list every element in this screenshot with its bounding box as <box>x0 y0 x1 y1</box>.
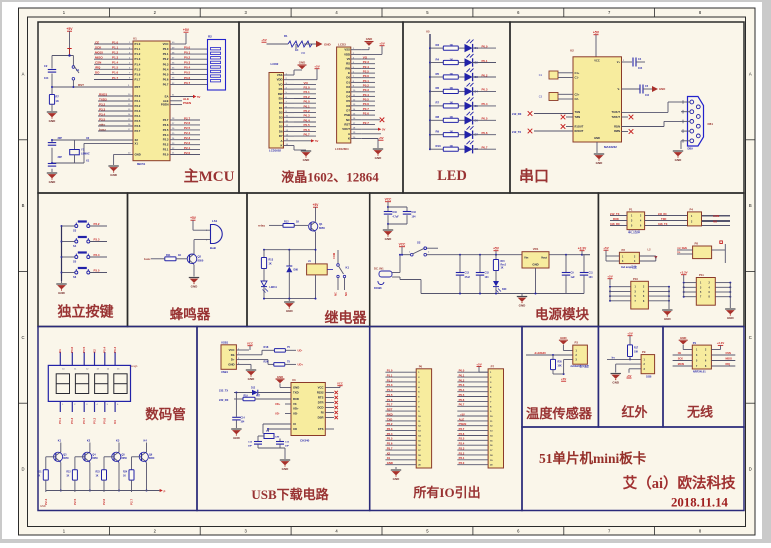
svg-text:P1.6: P1.6 <box>135 72 141 76</box>
svg-text:P3.0: P3.0 <box>135 94 141 98</box>
svg-text:+3.3V: +3.3V <box>717 341 725 345</box>
svg-text:P1.7: P1.7 <box>112 76 119 80</box>
svg-text:R19: R19 <box>244 396 249 398</box>
svg-text:D0: D0 <box>279 101 283 105</box>
svg-text:R2: R2 <box>208 35 212 39</box>
svg-text:红外: 红外 <box>621 405 647 420</box>
svg-text:P4: P4 <box>690 207 694 211</box>
svg-text:1K: 1K <box>123 476 126 478</box>
svg-text:RS: RS <box>346 62 350 66</box>
svg-text:R1IN: R1IN <box>614 124 620 128</box>
svg-text:R24: R24 <box>123 471 128 474</box>
svg-text:10K: 10K <box>634 352 639 354</box>
svg-text:P0.7: P0.7 <box>459 403 465 407</box>
svg-text:R21: R21 <box>37 472 42 474</box>
svg-text:E: E <box>348 71 350 75</box>
svg-text:8050: 8050 <box>122 457 128 460</box>
svg-text:buzz: buzz <box>144 257 151 261</box>
svg-text:RXD: RXD <box>613 217 619 221</box>
svg-text:P2.3: P2.3 <box>363 60 370 64</box>
svg-text:R1OUT: R1OUT <box>575 124 584 128</box>
svg-text:GND: GND <box>727 316 735 320</box>
svg-text:P2.7: P2.7 <box>184 116 191 120</box>
svg-text:D5: D5 <box>279 125 283 129</box>
svg-text:数码管: 数码管 <box>145 406 186 422</box>
svg-text:89C51: 89C51 <box>137 162 146 166</box>
svg-text:P3.2: P3.2 <box>94 222 100 226</box>
svg-text:P0.2: P0.2 <box>92 417 96 424</box>
svg-text:P1.4: P1.4 <box>112 61 119 65</box>
svg-text:+5V: +5V <box>627 374 632 378</box>
svg-text:GND: GND <box>375 156 383 160</box>
svg-text:P0.3: P0.3 <box>113 346 117 353</box>
svg-text:4.7uF: 4.7uF <box>393 216 400 219</box>
svg-text:P0.6: P0.6 <box>184 76 191 80</box>
svg-text:K1: K1 <box>346 266 350 270</box>
svg-text:P0.3: P0.3 <box>304 114 311 118</box>
svg-text:R232: R232 <box>317 391 324 395</box>
svg-text:D20: D20 <box>502 288 507 291</box>
svg-text:P1.7: P1.7 <box>135 78 141 82</box>
svg-text:T2IN: T2IN <box>575 115 581 119</box>
svg-text:R9: R9 <box>436 130 440 134</box>
svg-text:BuB: BuB <box>210 246 216 250</box>
svg-text:K1: K1 <box>58 349 62 353</box>
svg-text:D3: D3 <box>279 115 283 119</box>
svg-text:P1.1: P1.1 <box>135 47 141 51</box>
svg-text:NRF24L01: NRF24L01 <box>693 369 706 373</box>
svg-text:P1.1: P1.1 <box>387 374 393 378</box>
svg-text:U2: U2 <box>570 49 574 53</box>
svg-text:P2.2: P2.2 <box>184 141 191 145</box>
svg-text:DO: DO <box>95 71 100 75</box>
svg-text:CSN: CSN <box>95 61 101 65</box>
svg-text:R7: R7 <box>56 95 60 99</box>
svg-text:P2.7: P2.7 <box>130 498 134 505</box>
svg-text:8050: 8050 <box>92 457 98 460</box>
svg-text:NO: NO <box>713 220 717 224</box>
svg-text:1K: 1K <box>56 99 59 103</box>
svg-text:X1: X1 <box>135 141 139 145</box>
svg-text:B: B <box>749 203 752 208</box>
svg-text:S5: S5 <box>73 260 77 264</box>
svg-text:液晶1602、12864: 液晶1602、12864 <box>281 170 379 185</box>
svg-text:P1.2: P1.2 <box>135 52 141 56</box>
svg-text:GND: GND <box>532 263 538 267</box>
svg-text:VCC: VCC <box>318 386 324 390</box>
svg-text:P3.7: P3.7 <box>387 447 393 451</box>
svg-text:D12: D12 <box>251 388 256 390</box>
svg-text:V-: V- <box>618 87 621 91</box>
svg-text:P0.4: P0.4 <box>363 93 370 97</box>
svg-text:30P: 30P <box>58 156 63 159</box>
svg-text:D+: D+ <box>231 358 235 362</box>
svg-text:+5V: +5V <box>314 65 319 69</box>
svg-text:P0.6: P0.6 <box>163 78 169 82</box>
svg-text:P0.7: P0.7 <box>363 107 370 111</box>
svg-text:P2.5: P2.5 <box>184 126 191 130</box>
svg-text:R8: R8 <box>436 115 440 119</box>
svg-text:P0.3: P0.3 <box>163 62 169 66</box>
svg-text:VDD: VDD <box>344 52 350 56</box>
svg-text:P0.1: P0.1 <box>482 59 488 63</box>
svg-text:P2.1: P2.1 <box>459 456 465 460</box>
svg-text:P1.5: P1.5 <box>112 66 119 70</box>
svg-text:R22: R22 <box>66 472 71 474</box>
svg-text:A: A <box>22 71 25 76</box>
svg-text:A: A <box>749 71 752 76</box>
svg-text:D6: D6 <box>279 129 283 133</box>
svg-text:VO: VO <box>301 51 306 55</box>
svg-text:mko: mko <box>99 122 105 126</box>
svg-text:P1.0: P1.0 <box>387 369 393 373</box>
svg-text:+5V: +5V <box>66 27 73 31</box>
svg-text:+5V: +5V <box>190 216 197 220</box>
svg-text:232_RX: 232_RX <box>219 398 229 402</box>
svg-text:GND: GND <box>40 504 46 508</box>
svg-text:P2.5: P2.5 <box>163 128 169 132</box>
svg-text:P2.1: P2.1 <box>304 90 311 94</box>
svg-text:318_RX: 318_RX <box>610 222 620 226</box>
svg-text:P0.6: P0.6 <box>363 102 370 106</box>
svg-text:IRQ: IRQ <box>726 363 731 366</box>
svg-text:R15: R15 <box>501 261 506 263</box>
svg-text:P2.2: P2.2 <box>163 143 169 147</box>
svg-text:GND: GND <box>596 161 604 165</box>
svg-text:GND: GND <box>324 42 332 46</box>
svg-text:Res2: Res2 <box>501 264 507 266</box>
svg-text:A: A <box>280 139 282 143</box>
svg-text:P3.5: P3.5 <box>135 119 141 123</box>
svg-text:Vout: Vout <box>541 256 547 260</box>
svg-text:P1.7: P1.7 <box>387 403 393 407</box>
svg-text:RTS: RTS <box>318 396 324 400</box>
svg-text:P3.3: P3.3 <box>99 107 106 111</box>
svg-text:R23: R23 <box>96 472 101 474</box>
svg-text:1838: 1838 <box>646 376 652 379</box>
svg-text:电源模块: 电源模块 <box>535 306 589 322</box>
svg-text:P0.3: P0.3 <box>482 88 488 92</box>
svg-text:P1.0: P1.0 <box>135 42 141 46</box>
svg-text:P2.6: P2.6 <box>363 112 370 116</box>
svg-text:D7: D7 <box>279 134 283 138</box>
svg-text:RXD: RXD <box>293 397 299 401</box>
svg-text:GND: GND <box>519 304 527 308</box>
svg-text:318_TX: 318_TX <box>658 222 668 226</box>
svg-text:GND: GND <box>299 61 305 65</box>
svg-text:P3.6: P3.6 <box>135 124 141 128</box>
svg-text:P2.2: P2.2 <box>304 95 311 99</box>
svg-text:P0.6: P0.6 <box>482 131 488 135</box>
svg-text:8050: 8050 <box>319 226 325 230</box>
svg-text:TXD: TXD <box>387 417 393 421</box>
svg-text:4K7: 4K7 <box>256 395 261 398</box>
svg-text:T1IN: T1IN <box>575 110 581 114</box>
svg-text:P1.3: P1.3 <box>135 57 141 61</box>
svg-text:LCD12864: LCD12864 <box>335 147 349 151</box>
svg-text:GND: GND <box>49 180 57 184</box>
svg-text:GND: GND <box>659 87 665 91</box>
svg-text:P0.3: P0.3 <box>363 88 370 92</box>
svg-text:USB下载电路: USB下载电路 <box>251 487 329 502</box>
svg-text:RS: RS <box>279 87 283 91</box>
svg-text:UD-: UD- <box>293 412 298 416</box>
svg-text:P0.7: P0.7 <box>82 417 86 424</box>
svg-text:CH340: CH340 <box>300 439 310 443</box>
svg-text:USB1: USB1 <box>221 340 229 344</box>
svg-text:P0.2: P0.2 <box>482 73 488 77</box>
svg-text:P0.0: P0.0 <box>482 44 488 48</box>
svg-text:+5V: +5V <box>378 136 383 140</box>
svg-text:D: D <box>749 467 752 472</box>
svg-text:P0.7: P0.7 <box>304 133 311 137</box>
svg-text:VCC: VCC <box>229 348 235 352</box>
svg-text:GND: GND <box>248 377 256 381</box>
svg-text:P1.2: P1.2 <box>387 378 393 382</box>
svg-text:212_TX: 212_TX <box>610 212 620 216</box>
svg-text:P2.5: P2.5 <box>73 498 77 505</box>
svg-text:P7: P7 <box>491 364 495 368</box>
svg-text:TXD: TXD <box>661 217 666 221</box>
svg-text:RST: RST <box>344 123 350 127</box>
svg-text:D4: D4 <box>346 94 350 98</box>
svg-text:P1.1: P1.1 <box>112 45 119 49</box>
svg-text:P1.2: P1.2 <box>112 50 119 54</box>
svg-text:1K: 1K <box>66 476 69 478</box>
svg-text:VDD: VDD <box>277 78 283 82</box>
svg-text:P2.3: P2.3 <box>163 138 169 142</box>
svg-text:串口选择: 串口选择 <box>628 229 640 234</box>
svg-text:C1+: C1+ <box>575 71 580 75</box>
svg-text:K: K <box>280 144 282 148</box>
svg-text:P1.4: P1.4 <box>387 388 393 392</box>
svg-text:R7: R7 <box>436 101 440 105</box>
svg-text:104: 104 <box>589 276 594 279</box>
svg-text:MOSI: MOSI <box>95 50 103 54</box>
svg-text:1K: 1K <box>269 263 272 266</box>
svg-text:8050: 8050 <box>63 457 69 460</box>
svg-text:5V: 5V <box>315 139 319 143</box>
svg-text:C13: C13 <box>465 272 470 275</box>
svg-text:12M: 12M <box>275 437 279 439</box>
svg-text:MISO: MISO <box>95 56 103 60</box>
svg-text:UD+: UD+ <box>275 402 281 406</box>
svg-text:R10: R10 <box>436 144 442 148</box>
svg-text:P2.4: P2.4 <box>184 131 191 135</box>
svg-text:V3: V3 <box>293 402 297 406</box>
svg-text:VCC: VCC <box>163 42 169 46</box>
svg-text:D2: D2 <box>279 111 283 115</box>
svg-text:UD-: UD- <box>275 412 280 416</box>
svg-text:+5V: +5V <box>593 31 600 35</box>
svg-text:47uF: 47uF <box>465 276 471 279</box>
svg-text:P1.5: P1.5 <box>387 393 393 397</box>
svg-text:U5: U5 <box>426 30 430 34</box>
svg-text:Q2: Q2 <box>198 255 202 259</box>
svg-text:232_TX: 232_TX <box>219 388 228 392</box>
svg-text:R12: R12 <box>284 221 289 224</box>
svg-text:P0.7: P0.7 <box>482 146 488 150</box>
svg-text:+5V: +5V <box>183 28 190 32</box>
svg-text:P2.6: P2.6 <box>459 432 465 436</box>
svg-text:+5V: +5V <box>379 42 384 46</box>
svg-text:P2.0: P2.0 <box>304 86 311 90</box>
svg-text:PSEN: PSEN <box>183 101 191 105</box>
svg-text:P0.0: P0.0 <box>363 74 370 78</box>
svg-text:P0.6: P0.6 <box>304 128 311 132</box>
svg-text:VCC: VCC <box>337 382 343 386</box>
svg-text:VO: VO <box>363 55 368 59</box>
svg-text:busz: busz <box>99 127 106 131</box>
svg-text:P: P <box>164 489 166 493</box>
svg-text:P0.1: P0.1 <box>163 52 169 56</box>
svg-text:P0.2: P0.2 <box>304 109 311 113</box>
svg-text:S2: S2 <box>417 241 421 245</box>
svg-text:Vin: Vin <box>524 256 529 260</box>
svg-text:+3.3V: +3.3V <box>578 247 587 251</box>
svg-text:K4: K4 <box>144 439 148 443</box>
svg-text:MISO: MISO <box>726 358 732 361</box>
svg-text:GND: GND <box>366 37 372 41</box>
svg-text:P3.3: P3.3 <box>94 238 100 242</box>
svg-text:Y1: Y1 <box>81 148 85 152</box>
svg-text:PSEN: PSEN <box>459 422 467 426</box>
svg-text:K2: K2 <box>87 439 91 443</box>
svg-text:DTR: DTR <box>318 401 324 405</box>
svg-text:GND: GND <box>58 291 66 295</box>
svg-text:104: 104 <box>638 67 643 70</box>
svg-text:D: D <box>21 467 24 472</box>
svg-text:艾（ai）欧法科技: 艾（ai）欧法科技 <box>623 474 736 492</box>
svg-text:1K: 1K <box>296 221 299 224</box>
svg-text:1K: 1K <box>295 48 298 52</box>
svg-text:K4: K4 <box>113 420 117 424</box>
svg-text:RXD: RXD <box>387 412 393 416</box>
svg-text:2018.11.14: 2018.11.14 <box>671 496 728 510</box>
svg-text:P3.5: P3.5 <box>99 117 106 121</box>
svg-text:P2.3: P2.3 <box>459 447 465 451</box>
svg-text:P0.4: P0.4 <box>304 118 311 122</box>
svg-text:C2-: C2- <box>575 97 579 101</box>
svg-text:P3.4: P3.4 <box>99 112 106 116</box>
svg-text:C14: C14 <box>241 417 246 420</box>
svg-text:C: C <box>749 335 752 340</box>
svg-text:P1.6: P1.6 <box>112 71 119 75</box>
svg-text:P0.5: P0.5 <box>184 71 191 75</box>
svg-text:GND: GND <box>49 119 57 123</box>
svg-text:+5V: +5V <box>493 247 500 251</box>
svg-text:P0.2: P0.2 <box>363 84 370 88</box>
svg-text:P2.4: P2.4 <box>363 65 370 69</box>
svg-text:30P: 30P <box>58 137 63 140</box>
svg-text:X1: X1 <box>387 456 391 460</box>
svg-text:P3.4: P3.4 <box>94 253 100 257</box>
svg-text:C16: C16 <box>412 211 417 214</box>
svg-text:V0: V0 <box>347 57 351 61</box>
svg-text:1K: 1K <box>37 476 40 478</box>
svg-text:GND: GND <box>680 336 686 340</box>
svg-text:R18: R18 <box>264 345 269 349</box>
svg-text:NC: NC <box>334 292 338 296</box>
svg-text:+5V: +5V <box>607 275 612 279</box>
svg-text:Ind amp功放: Ind amp功放 <box>621 265 637 269</box>
svg-text:D7: D7 <box>346 109 350 113</box>
svg-text:DCD: DCD <box>317 406 323 410</box>
svg-text:VCC: VCC <box>594 59 600 63</box>
svg-text:U1: U1 <box>133 36 137 40</box>
svg-text:P3.2: P3.2 <box>99 102 106 106</box>
svg-text:R26: R26 <box>264 359 269 363</box>
svg-text:+3.3V: +3.3V <box>680 271 688 275</box>
svg-text:B: B <box>22 203 25 208</box>
svg-text:+5V: +5V <box>261 38 266 42</box>
svg-text:IRQ: IRQ <box>95 66 101 70</box>
svg-text:GND: GND <box>110 173 118 177</box>
svg-text:1K: 1K <box>178 254 181 257</box>
svg-text:V+: V+ <box>617 60 621 64</box>
svg-text:P0.1: P0.1 <box>459 374 465 378</box>
svg-text:P2.3: P2.3 <box>184 136 191 140</box>
svg-text:P2.0: P2.0 <box>184 151 191 155</box>
svg-text:GND: GND <box>228 363 234 367</box>
svg-text:212_RX: 212_RX <box>512 112 522 116</box>
svg-text:P2.6: P2.6 <box>163 123 169 127</box>
svg-text:P3.3: P3.3 <box>387 427 393 431</box>
svg-text:UD-: UD- <box>298 349 303 353</box>
svg-text:USB1: USB1 <box>221 370 228 374</box>
svg-text:SCK: SCK <box>678 358 683 361</box>
svg-text:D5: D5 <box>346 99 350 103</box>
svg-text:P1.3: P1.3 <box>112 56 119 60</box>
svg-text:UD+: UD+ <box>293 407 299 411</box>
svg-text:LCD1602: LCD1602 <box>269 149 281 153</box>
svg-text:R30: R30 <box>558 362 563 364</box>
svg-text:R2OUT: R2OUT <box>575 129 584 133</box>
svg-text:smg1: smg1 <box>131 364 138 368</box>
svg-text:VSS: VSS <box>344 48 350 52</box>
svg-text:独立按键: 独立按键 <box>58 304 115 321</box>
svg-text:P0.7: P0.7 <box>184 81 191 85</box>
svg-text:104: 104 <box>645 94 650 97</box>
svg-text:NC: NC <box>346 118 350 122</box>
svg-text:30P: 30P <box>285 446 289 448</box>
svg-text:P0.4: P0.4 <box>103 346 107 353</box>
svg-text:+5V: +5V <box>627 332 632 336</box>
svg-text:232_RX: 232_RX <box>658 213 667 216</box>
svg-text:P2.2: P2.2 <box>459 451 465 455</box>
svg-text:P6: P6 <box>419 364 423 368</box>
svg-text:GND: GND <box>135 152 141 156</box>
svg-text:P10: P10 <box>633 277 638 281</box>
svg-text:所有IO引出: 所有IO引出 <box>413 485 480 500</box>
svg-text:S3: S3 <box>73 229 77 233</box>
svg-text:P0.4: P0.4 <box>184 66 191 70</box>
svg-text:30P: 30P <box>248 446 252 448</box>
svg-text:VCC: VCC <box>399 243 406 247</box>
svg-text:继电器: 继电器 <box>325 310 368 327</box>
svg-text:1K: 1K <box>96 476 99 478</box>
svg-text:RW: RW <box>278 92 283 96</box>
svg-text:COM: COM <box>332 253 336 259</box>
svg-text:D4: D4 <box>279 120 283 124</box>
svg-text:P2.0: P2.0 <box>459 461 465 465</box>
svg-text:relay: relay <box>258 224 265 228</box>
svg-text:P9: P9 <box>642 350 646 354</box>
svg-text:P1: P1 <box>629 207 633 211</box>
svg-text:P2: P2 <box>622 248 626 252</box>
svg-text:GND: GND <box>286 309 294 313</box>
svg-text:P1.3: P1.3 <box>387 383 393 387</box>
